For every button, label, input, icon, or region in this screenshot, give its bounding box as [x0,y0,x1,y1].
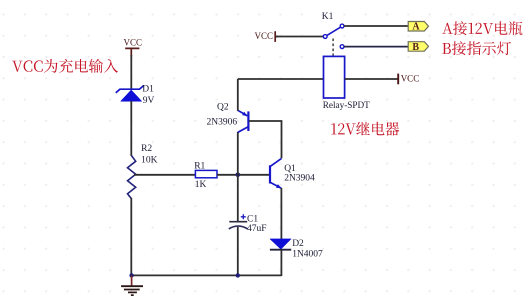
port A flag [408,22,428,33]
svg-text:1N4007: 1N4007 [292,249,323,259]
port B flag [408,42,428,53]
svg-text:2N3906: 2N3906 [207,118,238,128]
wire top rail to relay coil [238,78,324,80]
svg-text:C1: C1 [247,214,258,224]
svg-text:VCC: VCC [124,37,143,47]
svg-text:Q2: Q2 [217,102,229,112]
switch K1 [322,12,344,49]
junction node R1/Q2/C1 [236,173,241,178]
annotation: 12V继电器 (red) [331,122,399,136]
power port VCC (top left input) [124,37,143,56]
wire C1 to bottom rail [237,227,239,275]
power port VCC (switch feed) [255,31,279,42]
svg-text:47uF: 47uF [247,224,267,234]
transistor Q1 2N3904 [270,158,315,188]
svg-text:1K: 1K [195,180,207,190]
power port VCC (relay right) [398,73,419,84]
annotation: B接指示灯 (red) [442,41,511,55]
svg-text:D2: D2 [292,239,304,249]
svg-text:B: B [412,42,419,53]
wire Q1 emitter to D2 [280,188,282,239]
wire Q2 emitter up to top rail [237,79,239,111]
wire D1 anode to R2 [130,101,132,156]
resistor R1 1K [194,161,217,190]
svg-text:Relay-SPDT: Relay-SPDT [323,100,370,110]
wire R2 tap to R1 [134,174,195,176]
transistor Q2 2N3906 [207,102,249,132]
wire VCC to D1 cathode [130,55,132,89]
svg-text:VCC: VCC [401,73,420,83]
svg-text:9V: 9V [143,96,155,106]
resistor R2 10K [128,144,158,198]
wire junction up to Q2 collector [237,132,239,175]
svg-text:R1: R1 [194,161,205,171]
wire relay coil to VCC [345,78,399,80]
svg-text:VCC: VCC [255,31,274,41]
wire VCC to switch pivot [276,36,323,38]
diode D2 1N4007 [270,239,323,260]
junction C1/rail [236,273,240,277]
dashed linkage relay to switch [332,39,334,56]
diode D1 zener 9V [116,84,155,106]
junction ground node [129,273,133,277]
svg-text:K1: K1 [322,12,334,22]
wire contact A to port A [344,25,408,27]
svg-text:A: A [412,22,420,33]
svg-text:10K: 10K [141,156,158,166]
capacitor C1 47uF [229,214,267,234]
wire D2 to bottom rail [280,250,282,276]
wire bottom rail [131,274,281,276]
wire junction down to C1 [237,175,239,222]
wire R2 to bottom rail [130,198,132,275]
svg-text:2N3904: 2N3904 [284,173,315,183]
annotation: VCC为充电输入 (red) [12,59,118,73]
annotation: A接12V电瓶 (red) [442,21,522,35]
svg-text:D1: D1 [142,84,154,94]
wire Q2 base to Q1 collector [249,121,282,158]
svg-text:R2: R2 [141,144,152,154]
relay coil Relay-SPDT [323,56,370,109]
wire R1 to Q1 base [217,174,270,176]
ground [121,275,143,295]
wire contact B to port B [344,46,408,48]
